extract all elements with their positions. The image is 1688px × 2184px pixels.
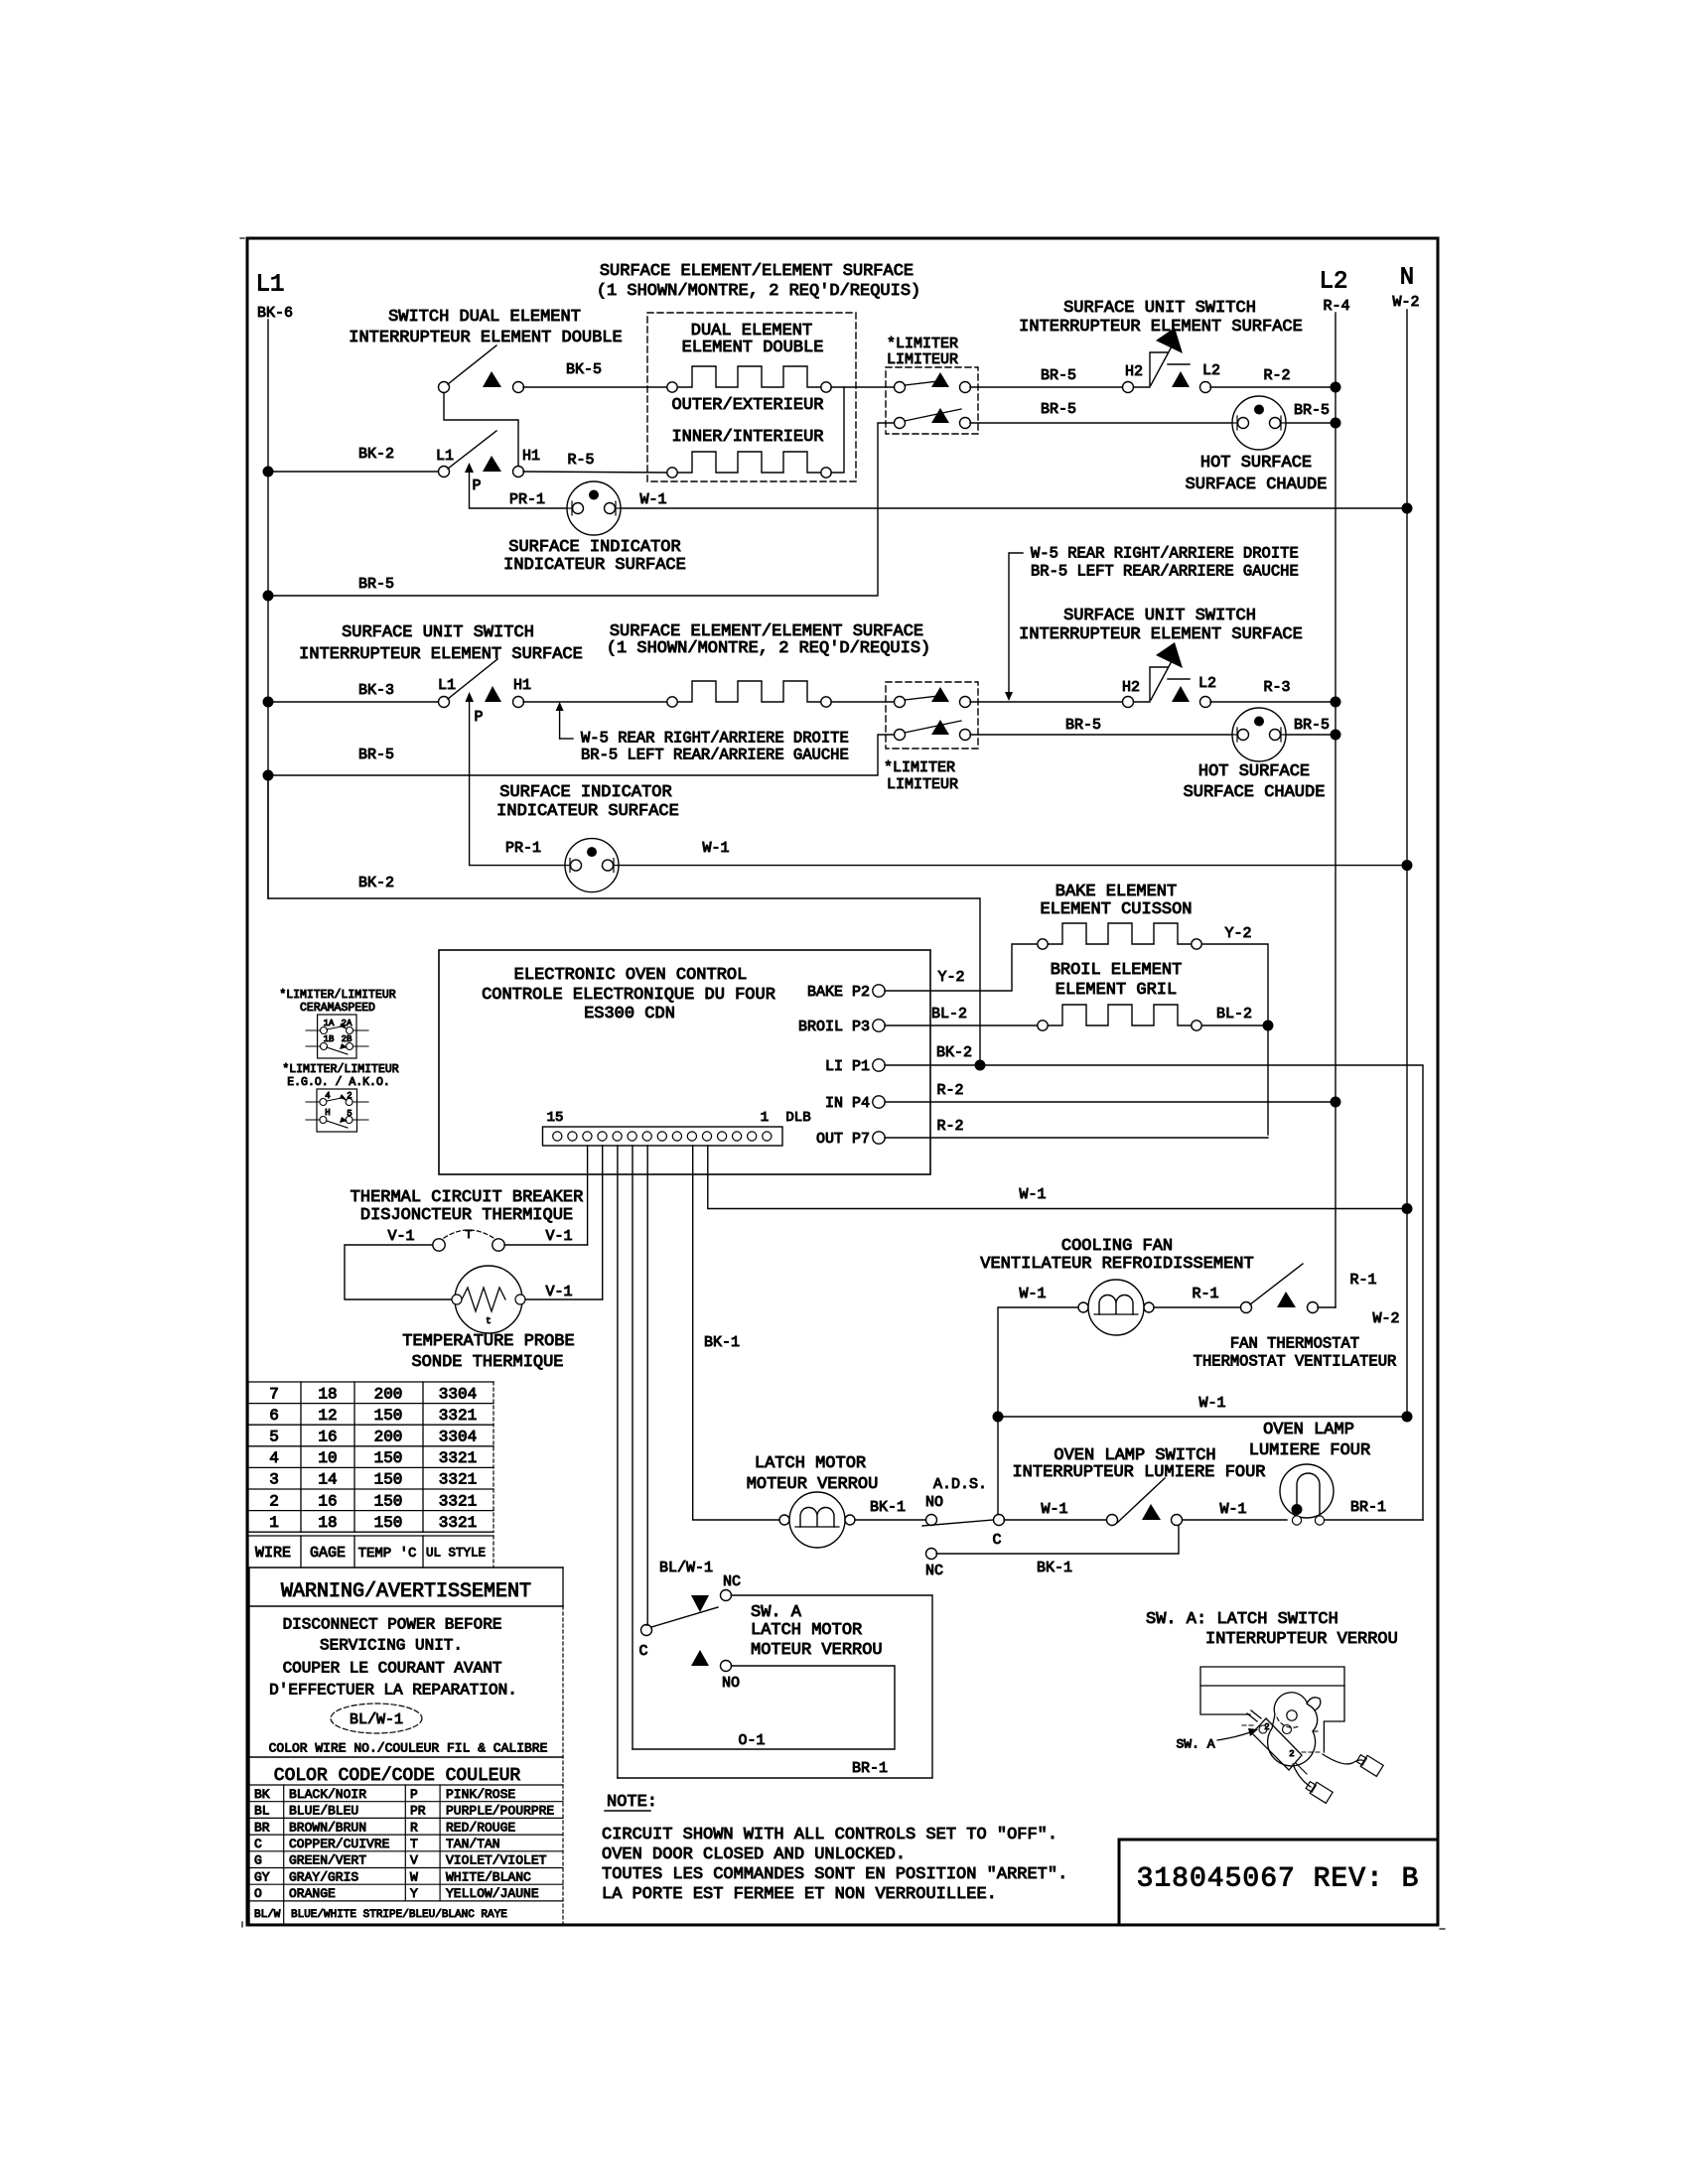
- temperature probe symbol: [452, 1266, 525, 1333]
- svg-text:W-1: W-1: [1019, 1286, 1046, 1302]
- junction IN P4 / L2 bus: [1331, 1097, 1341, 1108]
- wire O-1 loop (NO to pin6): [633, 1666, 895, 1749]
- wire pin3 drop to breaker: [587, 1146, 589, 1245]
- oven lamp switch: [1107, 1478, 1183, 1526]
- wire P stem to surface indicator 1: [470, 473, 568, 508]
- svg-text:L2: L2: [1320, 268, 1348, 295]
- svg-text:Y-2: Y-2: [1224, 925, 1251, 942]
- svg-text:BK-1: BK-1: [870, 1499, 906, 1516]
- wire BK-1 latch motor to ADS NO: [855, 1519, 925, 1521]
- wire P stem to surface indicator 2: [470, 702, 565, 866]
- wire W-1 indicator2 to N bus: [619, 865, 1407, 867]
- thermal circuit breaker symbol: [433, 1228, 504, 1251]
- svg-text:COOLING FAN: COOLING FAN: [1061, 1237, 1173, 1256]
- svg-text:R-2: R-2: [936, 1082, 963, 1099]
- svg-text:P: P: [474, 709, 483, 726]
- svg-text:BL: BL: [254, 1804, 270, 1819]
- svg-text:COLOR WIRE NO./COULEUR FIL & C: COLOR WIRE NO./COULEUR FIL & CALIBRE: [269, 1741, 548, 1756]
- junction BR-5 / L2 bus row1B: [1331, 418, 1341, 429]
- svg-text:BR-5: BR-5: [1294, 402, 1330, 419]
- svg-text:R: R: [410, 1820, 418, 1835]
- svg-text:P: P: [410, 1787, 418, 1802]
- wire N bus vertical W-2: [1406, 310, 1408, 1417]
- latch switch SW.A C terminal: [641, 1625, 652, 1636]
- svg-text:BK-2: BK-2: [358, 875, 394, 891]
- svg-text:1: 1: [269, 1514, 279, 1532]
- svg-text:INTERRUPTEUR VERROU: INTERRUPTEUR VERROU: [1205, 1630, 1398, 1649]
- svg-text:OUTER/EXTERIEUR: OUTER/EXTERIEUR: [671, 396, 823, 415]
- junction W-1 / N bus lamp row: [1402, 1412, 1413, 1423]
- oven lamp symbol: [1280, 1464, 1334, 1525]
- svg-text:14: 14: [318, 1471, 337, 1489]
- svg-text:4: 4: [269, 1449, 279, 1467]
- svg-text:INDICATEUR SURFACE: INDICATEUR SURFACE: [503, 556, 686, 575]
- svg-text:ELEMENT CUISSON: ELEMENT CUISSON: [1040, 900, 1192, 919]
- wire bake element right to BL-2 junction: [1202, 944, 1268, 1135]
- svg-text:2: 2: [1289, 1749, 1294, 1759]
- svg-text:L1: L1: [436, 448, 454, 465]
- junction W-1 fan column: [993, 1412, 1004, 1423]
- svg-text:200: 200: [374, 1385, 403, 1403]
- svg-text:150: 150: [374, 1471, 403, 1489]
- wire V-1 right: [504, 1244, 588, 1246]
- svg-text:2A: 2A: [342, 1019, 352, 1028]
- wire thermostat to L2 bus: [1318, 1306, 1336, 1308]
- junction L1 bus / BK-3: [263, 697, 274, 708]
- electronic oven control box: [439, 950, 930, 1174]
- broil element: [1038, 1005, 1201, 1030]
- wire BR-5 row2 from bus to limiter2B: [268, 735, 894, 775]
- svg-text:SURFACE CHAUDE: SURFACE CHAUDE: [1184, 783, 1326, 802]
- svg-text:BK-2: BK-2: [936, 1044, 972, 1061]
- svg-text:R-1: R-1: [1349, 1272, 1376, 1289]
- svg-text:CERAMASPEED: CERAMASPEED: [300, 1002, 375, 1015]
- svg-text:RED/ROUGE: RED/ROUGE: [446, 1820, 515, 1835]
- latch switch pictorial wires and spades: [1293, 1752, 1383, 1803]
- svg-text:SONDE THERMIQUE: SONDE THERMIQUE: [411, 1353, 563, 1372]
- wire W-1 to cooling fan: [998, 1307, 1083, 1417]
- svg-text:VIOLET/VIOLET: VIOLET/VIOLET: [446, 1853, 547, 1868]
- svg-text:NO: NO: [925, 1494, 943, 1511]
- svg-text:BR-5: BR-5: [358, 576, 394, 593]
- svg-text:W-1: W-1: [1198, 1395, 1225, 1412]
- svg-text:T: T: [410, 1837, 418, 1851]
- svg-text:BK-3: BK-3: [358, 682, 394, 699]
- wire BK-1 ADS NC to lamp switch right: [936, 1526, 1179, 1554]
- wire BK-2 bottom from bus to EOC P1 column: [268, 775, 980, 1065]
- svg-text:WHITE/BLANC: WHITE/BLANC: [446, 1869, 531, 1884]
- svg-text:W-2: W-2: [1392, 294, 1419, 311]
- latch switch SW.A NO contact: [721, 1661, 732, 1672]
- svg-text:PINK/ROSE: PINK/ROSE: [446, 1787, 515, 1802]
- wire number legend ellipse BL/W-1: [331, 1704, 422, 1733]
- wire W-1 lamp switch to oven lamp: [1183, 1519, 1287, 1521]
- svg-text:W-1: W-1: [702, 840, 729, 857]
- svg-text:DLB: DLB: [785, 1110, 810, 1126]
- limiter legend EGO/AKO box: [317, 1089, 357, 1132]
- surface unit switch contacts H2/L2 row1: [1123, 328, 1211, 393]
- svg-text:12: 12: [318, 1407, 337, 1425]
- limiter 2 contact B: [895, 720, 971, 741]
- svg-text:A.D.S.: A.D.S.: [933, 1476, 987, 1493]
- svg-text:W-1: W-1: [1019, 1186, 1046, 1203]
- svg-text:GAGE: GAGE: [310, 1545, 346, 1562]
- svg-text:BLACK/NOIR: BLACK/NOIR: [289, 1787, 366, 1802]
- svg-text:BROIL ELEMENT: BROIL ELEMENT: [1051, 961, 1183, 980]
- svg-text:(1 SHOWN/MONTRE, 2 REQ'D/REQUI: (1 SHOWN/MONTRE, 2 REQ'D/REQUIS): [607, 639, 930, 658]
- svg-text:DISCONNECT POWER BEFORE: DISCONNECT POWER BEFORE: [283, 1616, 502, 1634]
- warning box: [249, 1568, 563, 1925]
- ADS switch C terminal: [994, 1515, 1005, 1526]
- surface indicator 2: [565, 839, 619, 892]
- wire hot surface 1 to bus: [1286, 422, 1336, 424]
- svg-text:THERMOSTAT VENTILATEUR: THERMOSTAT VENTILATEUR: [1194, 1352, 1397, 1370]
- svg-text:H2: H2: [1122, 679, 1140, 696]
- wire R-2 IN P4 to bus: [885, 1101, 1336, 1103]
- wire element2 to limiter 2: [831, 701, 895, 703]
- svg-text:BK-2: BK-2: [358, 446, 394, 463]
- svg-text:2: 2: [347, 1091, 352, 1101]
- svg-text:D'EFFECTUER LA REPARATION.: D'EFFECTUER LA REPARATION.: [269, 1682, 517, 1700]
- svg-text:18: 18: [318, 1514, 337, 1532]
- svg-text:BL-2: BL-2: [1216, 1006, 1252, 1023]
- svg-text:LATCH MOTOR: LATCH MOTOR: [755, 1454, 866, 1473]
- svg-text:150: 150: [374, 1407, 403, 1425]
- wire R-5: [523, 472, 667, 473]
- svg-text:V-1: V-1: [545, 1284, 572, 1300]
- svg-text:BAKE P2: BAKE P2: [807, 984, 870, 1001]
- wire limiter2 to H2: [970, 701, 1122, 703]
- svg-text:LA PORTE EST FERMEE ET NON VER: LA PORTE EST FERMEE ET NON VERROUILLEE.: [602, 1885, 997, 1904]
- limiter legend ceramaspeed box: [318, 1015, 356, 1058]
- wire W-1 pin11 to N bus: [708, 1146, 1407, 1209]
- wire gauge table: [248, 1382, 493, 1568]
- junction BR-5 / L2 bus row2B: [1331, 730, 1341, 741]
- svg-text:OVEN DOOR CLOSED AND UNLOCKED.: OVEN DOOR CLOSED AND UNLOCKED.: [602, 1845, 906, 1864]
- svg-text:2: 2: [1264, 1722, 1269, 1732]
- junction R-3 / L2 bus: [1331, 697, 1341, 708]
- svg-text:YELLOW/JAUNE: YELLOW/JAUNE: [446, 1886, 539, 1901]
- wire W-1 down to ADS C: [997, 1417, 999, 1520]
- svg-text:O: O: [254, 1886, 262, 1901]
- border frame: [247, 238, 1438, 1925]
- wire pin5 drop (BR-1 loop): [617, 1146, 619, 1778]
- svg-text:INNER/INTERIEUR: INNER/INTERIEUR: [671, 428, 823, 447]
- svg-text:G: G: [254, 1853, 262, 1868]
- latch switch SW.A NC contact: [721, 1590, 732, 1601]
- wire broil right to junction: [1202, 1024, 1268, 1026]
- limiter 2 dashed box: [886, 682, 978, 749]
- svg-text:SURFACE ELEMENT/ELEMENT SURFAC: SURFACE ELEMENT/ELEMENT SURFACE: [600, 262, 914, 281]
- svg-text:GY: GY: [254, 1869, 270, 1884]
- ADS switch NC terminal: [926, 1549, 937, 1560]
- note W-5/BR-5 rear (sec2) arrow: [559, 709, 561, 739]
- svg-text:R-4: R-4: [1323, 298, 1349, 315]
- svg-text:INTERRUPTEUR ELEMENT DOUBLE: INTERRUPTEUR ELEMENT DOUBLE: [349, 329, 622, 347]
- svg-text:BL/W: BL/W: [254, 1909, 281, 1921]
- svg-text:T: T: [465, 1228, 472, 1242]
- svg-text:IN P4: IN P4: [825, 1095, 870, 1112]
- svg-text:LUMIERE FOUR: LUMIERE FOUR: [1249, 1441, 1370, 1460]
- svg-text:L1: L1: [438, 677, 456, 694]
- svg-text:INDICATEUR SURFACE: INDICATEUR SURFACE: [496, 802, 679, 821]
- wire BR-5 limiter1B to hot surface indicator 1: [970, 422, 1232, 424]
- svg-text:BR-5 LEFT REAR/ARRIERE GAUCHE: BR-5 LEFT REAR/ARRIERE GAUCHE: [581, 746, 849, 763]
- svg-text:ORANGE: ORANGE: [289, 1886, 336, 1901]
- wire R-2 OUT P7: [885, 1137, 1268, 1139]
- svg-text:INTERRUPTEUR ELEMENT SURFACE: INTERRUPTEUR ELEMENT SURFACE: [1019, 625, 1303, 644]
- svg-text:C: C: [992, 1532, 1001, 1549]
- switch surface unit L1/H1 (sec2): [439, 659, 524, 708]
- svg-text:TEMP 'C: TEMP 'C: [358, 1546, 417, 1562]
- junction R-2 / L2 bus: [1331, 382, 1341, 393]
- svg-text:LATCH MOTOR: LATCH MOTOR: [751, 1621, 862, 1640]
- svg-text:10: 10: [318, 1449, 337, 1467]
- svg-text:WARNING/AVERTISSEMENT: WARNING/AVERTISSEMENT: [281, 1580, 531, 1603]
- svg-text:1B: 1B: [324, 1034, 335, 1044]
- svg-text:INTERRUPTEUR ELEMENT SURFACE: INTERRUPTEUR ELEMENT SURFACE: [1019, 318, 1303, 337]
- svg-text:150: 150: [374, 1449, 403, 1467]
- svg-text:ELECTRONIC OVEN CONTROL: ELECTRONIC OVEN CONTROL: [514, 966, 748, 985]
- latch switch pictorial bracket: [1200, 1667, 1344, 1752]
- svg-text:SURFACE CHAUDE: SURFACE CHAUDE: [1186, 476, 1328, 494]
- svg-text:COLOR CODE/CODE COULEUR: COLOR CODE/CODE COULEUR: [274, 1766, 521, 1786]
- svg-text:V: V: [410, 1853, 418, 1868]
- svg-text:GREEN/VERT: GREEN/VERT: [289, 1853, 366, 1868]
- svg-text:W-2: W-2: [1372, 1310, 1399, 1327]
- svg-text:7: 7: [269, 1385, 279, 1403]
- svg-text:NOTE:: NOTE:: [607, 1793, 657, 1812]
- svg-text:BAKE ELEMENT: BAKE ELEMENT: [1055, 883, 1177, 901]
- svg-text:PR-1: PR-1: [505, 840, 541, 857]
- svg-text:3321: 3321: [439, 1471, 477, 1489]
- svg-text:DISJONCTEUR THERMIQUE: DISJONCTEUR THERMIQUE: [360, 1206, 573, 1225]
- svg-text:2: 2: [269, 1492, 279, 1510]
- svg-text:PR: PR: [410, 1804, 426, 1819]
- surface unit switch contacts H2/L2 row2: [1123, 642, 1211, 708]
- svg-text:3: 3: [269, 1471, 279, 1489]
- svg-text:SURFACE UNIT SWITCH: SURFACE UNIT SWITCH: [1063, 299, 1256, 318]
- svg-text:BR-5: BR-5: [1065, 717, 1101, 734]
- svg-text:E.G.O. / A.K.O.: E.G.O. / A.K.O.: [287, 1076, 390, 1089]
- svg-text:H2: H2: [1125, 363, 1143, 380]
- svg-text:W-5 REAR RIGHT/ARRIERE DROITE: W-5 REAR RIGHT/ARRIERE DROITE: [1031, 544, 1299, 562]
- junction BK-2 column: [975, 1060, 986, 1071]
- svg-text:SURFACE INDICATOR: SURFACE INDICATOR: [508, 538, 680, 557]
- svg-text:BROIL P3: BROIL P3: [798, 1019, 870, 1035]
- wire L1 bus vertical BK-6: [267, 320, 269, 898]
- svg-text:BL/W-1: BL/W-1: [659, 1560, 713, 1576]
- svg-text:3304: 3304: [439, 1385, 477, 1403]
- wire R-1 fan to thermostat: [1154, 1306, 1240, 1308]
- svg-text:C: C: [254, 1837, 262, 1851]
- svg-text:SW. A: SW. A: [1176, 1737, 1214, 1752]
- svg-text:UL STYLE: UL STYLE: [426, 1546, 486, 1560]
- wire pin6 drop (O-1 loop): [632, 1146, 633, 1749]
- svg-text:BR-1: BR-1: [852, 1760, 888, 1777]
- wire inner element join: [831, 387, 844, 473]
- svg-text:W-5 REAR RIGHT/ARRIERE DROITE: W-5 REAR RIGHT/ARRIERE DROITE: [581, 729, 849, 747]
- svg-text:*LIMITER: *LIMITER: [884, 759, 955, 776]
- svg-text:BL-2: BL-2: [931, 1006, 967, 1023]
- latch switch pictorial switch body: [1242, 1718, 1307, 1774]
- cooling fan motor: [1078, 1280, 1154, 1335]
- inner surface element: [667, 452, 831, 478]
- wire V-1 left: [345, 1245, 452, 1299]
- svg-text:150: 150: [374, 1514, 403, 1532]
- svg-text:BLUE/WHITE STRIPE/BLEU/BLANC R: BLUE/WHITE STRIPE/BLEU/BLANC RAYE: [291, 1909, 507, 1921]
- svg-text:COUPER LE COURANT AVANT: COUPER LE COURANT AVANT: [283, 1660, 502, 1678]
- svg-text:BR-5: BR-5: [1041, 367, 1076, 384]
- svg-text:INTERRUPTEUR ELEMENT SURFACE: INTERRUPTEUR ELEMENT SURFACE: [299, 645, 583, 664]
- svg-text:V-1: V-1: [545, 1228, 572, 1245]
- svg-text:NO: NO: [722, 1675, 740, 1692]
- wire BK-2 row1: [268, 471, 438, 473]
- svg-text:*LIMITER: *LIMITER: [887, 336, 958, 352]
- svg-text:PR-1: PR-1: [509, 491, 545, 508]
- junction W-1 / N bus sec2: [1402, 860, 1413, 871]
- svg-text:18: 18: [318, 1385, 337, 1403]
- svg-text:L2: L2: [1202, 362, 1220, 379]
- svg-text:t: t: [486, 1316, 491, 1326]
- terminal P arrow (sec2): [466, 692, 475, 702]
- svg-text:3321: 3321: [439, 1514, 477, 1532]
- wire Y-2 P2 to bake element: [885, 944, 1037, 991]
- svg-text:OUT P7: OUT P7: [816, 1131, 870, 1148]
- svg-text:1A: 1A: [324, 1019, 335, 1028]
- svg-text:3321: 3321: [439, 1492, 477, 1510]
- svg-text:SERVICING UNIT.: SERVICING UNIT.: [320, 1637, 463, 1655]
- svg-text:LIMITEUR: LIMITEUR: [887, 351, 958, 368]
- svg-text:3304: 3304: [439, 1429, 477, 1446]
- wire V-1 probe right: [525, 1298, 603, 1300]
- svg-text:BLUE/BLEU: BLUE/BLEU: [289, 1804, 358, 1819]
- svg-text:318045067 REV: B: 318045067 REV: B: [1137, 1864, 1420, 1895]
- svg-text:R-2: R-2: [1263, 367, 1290, 384]
- hot surface indicator 2: [1232, 708, 1286, 761]
- svg-text:R-3: R-3: [1263, 679, 1290, 696]
- latch switch SW.A blade: [651, 1607, 718, 1627]
- svg-text:W: W: [410, 1869, 418, 1884]
- limiter 1 contact B: [895, 408, 971, 429]
- wire R-3 L2 to bus: [1210, 701, 1336, 703]
- latch motor: [779, 1492, 855, 1548]
- wire hot surface 2 to bus: [1286, 734, 1336, 736]
- svg-text:OVEN LAMP: OVEN LAMP: [1263, 1421, 1354, 1439]
- limiter 2 contact A: [895, 687, 971, 708]
- latch switch pictorial leader: [1217, 1732, 1250, 1740]
- wire W-1 ADS C to lamp switch: [1004, 1519, 1106, 1521]
- svg-text:P: P: [472, 478, 481, 494]
- svg-text:BR-5: BR-5: [1294, 717, 1330, 734]
- svg-text:BR-5: BR-5: [1041, 401, 1076, 418]
- svg-text:BL/W-1: BL/W-1: [350, 1711, 403, 1728]
- svg-text:V-1: V-1: [387, 1228, 414, 1245]
- wire BL-2 P3 to broil element: [885, 1024, 1037, 1026]
- corner tick top-left: [240, 237, 244, 239]
- svg-text:MOTEUR VERROU: MOTEUR VERROU: [747, 1475, 879, 1494]
- limiter 1 contact A: [895, 372, 971, 393]
- svg-text:O-1: O-1: [738, 1732, 765, 1749]
- svg-text:R-1: R-1: [1192, 1286, 1218, 1302]
- svg-text:BK-6: BK-6: [257, 305, 293, 322]
- svg-text:BK-1: BK-1: [1037, 1560, 1072, 1576]
- svg-text:Y: Y: [410, 1886, 418, 1901]
- wire pin7 to C terminal: [646, 1624, 647, 1626]
- junction L1 bus / BR-5 row1: [263, 591, 274, 602]
- svg-text:*LIMITER/LIMITEUR: *LIMITER/LIMITEUR: [279, 989, 395, 1002]
- svg-text:INTERRUPTEUR LUMIERE FOUR: INTERRUPTEUR LUMIERE FOUR: [1012, 1463, 1265, 1482]
- svg-text:TEMPERATURE PROBE: TEMPERATURE PROBE: [402, 1332, 574, 1351]
- junction L1 bus / BR-5 row2: [263, 770, 274, 781]
- svg-text:W-1: W-1: [1219, 1501, 1246, 1518]
- fan thermostat switch: [1241, 1264, 1319, 1313]
- surface indicator 1: [567, 481, 621, 535]
- svg-text:CONTROLE ELECTRONIQUE DU FOUR: CONTROLE ELECTRONIQUE DU FOUR: [482, 986, 775, 1005]
- svg-text:FAN THERMOSTAT: FAN THERMOSTAT: [1230, 1334, 1359, 1352]
- wire BK-3: [268, 701, 438, 703]
- svg-text:SURFACE UNIT SWITCH: SURFACE UNIT SWITCH: [342, 623, 534, 642]
- note W-5/BR-5 rear (sec1) leader: [1009, 553, 1023, 694]
- svg-text:C: C: [638, 1643, 647, 1660]
- surface element 2: [667, 681, 831, 707]
- wire L2 bus vertical R-4: [1335, 313, 1336, 1307]
- switch dual element lower pole L1-H1: [439, 431, 524, 478]
- svg-text:MOTEUR VERROU: MOTEUR VERROU: [751, 1641, 883, 1660]
- svg-text:4: 4: [325, 1091, 330, 1101]
- svg-text:15: 15: [547, 1110, 564, 1126]
- wire pin7 drop to latch switch C: [646, 1146, 648, 1625]
- junction W-1 / N bus sec1: [1402, 503, 1413, 514]
- svg-text:L2: L2: [1198, 675, 1216, 692]
- svg-text:BK-5: BK-5: [566, 361, 602, 378]
- junction W-1 / N bus mid: [1402, 1203, 1413, 1214]
- svg-text:COPPER/CUIVRE: COPPER/CUIVRE: [289, 1837, 390, 1851]
- svg-text:CIRCUIT SHOWN WITH ALL CONTROL: CIRCUIT SHOWN WITH ALL CONTROLS SET TO "…: [602, 1826, 1057, 1844]
- svg-text:SWITCH DUAL ELEMENT: SWITCH DUAL ELEMENT: [388, 308, 581, 327]
- wire BR-5 limiter2B to hot surface indicator 2: [970, 734, 1232, 736]
- svg-text:Y-2: Y-2: [937, 969, 964, 986]
- svg-text:R-2: R-2: [936, 1118, 963, 1135]
- switch dual element upper pole: [439, 345, 524, 393]
- svg-text:16: 16: [318, 1429, 337, 1446]
- svg-text:5: 5: [269, 1429, 279, 1446]
- bake element: [1038, 923, 1201, 949]
- hot surface indicator 1: [1232, 396, 1286, 450]
- color code table: [249, 1766, 563, 1925]
- svg-text:200: 200: [374, 1429, 403, 1446]
- svg-text:SURFACE UNIT SWITCH: SURFACE UNIT SWITCH: [1063, 607, 1256, 625]
- svg-text:BK: BK: [254, 1787, 270, 1802]
- junction BL-2: [1263, 1021, 1274, 1031]
- wire BR-5 limiter1 to H2: [970, 386, 1122, 388]
- dual element dashed box: [647, 313, 856, 481]
- svg-text:LIMITEUR: LIMITEUR: [887, 776, 958, 793]
- svg-text:TAN/TAN: TAN/TAN: [446, 1837, 500, 1851]
- ADS switch NO terminal: [926, 1515, 937, 1526]
- title block: [1119, 1840, 1438, 1925]
- junction L1 bus / BK-2: [263, 467, 274, 478]
- svg-text:NC: NC: [723, 1573, 741, 1590]
- svg-text:BK-1: BK-1: [704, 1334, 740, 1351]
- wire outer element to limiter 1: [831, 386, 895, 388]
- svg-text:L1: L1: [256, 271, 285, 298]
- svg-text:HOT SURFACE: HOT SURFACE: [1198, 762, 1310, 781]
- wire H1 to element 2: [523, 701, 667, 703]
- svg-text:2B: 2B: [342, 1034, 352, 1044]
- wire W-1 horizontal to N bus (lamp row): [998, 1416, 1407, 1418]
- outer surface element: [667, 366, 831, 392]
